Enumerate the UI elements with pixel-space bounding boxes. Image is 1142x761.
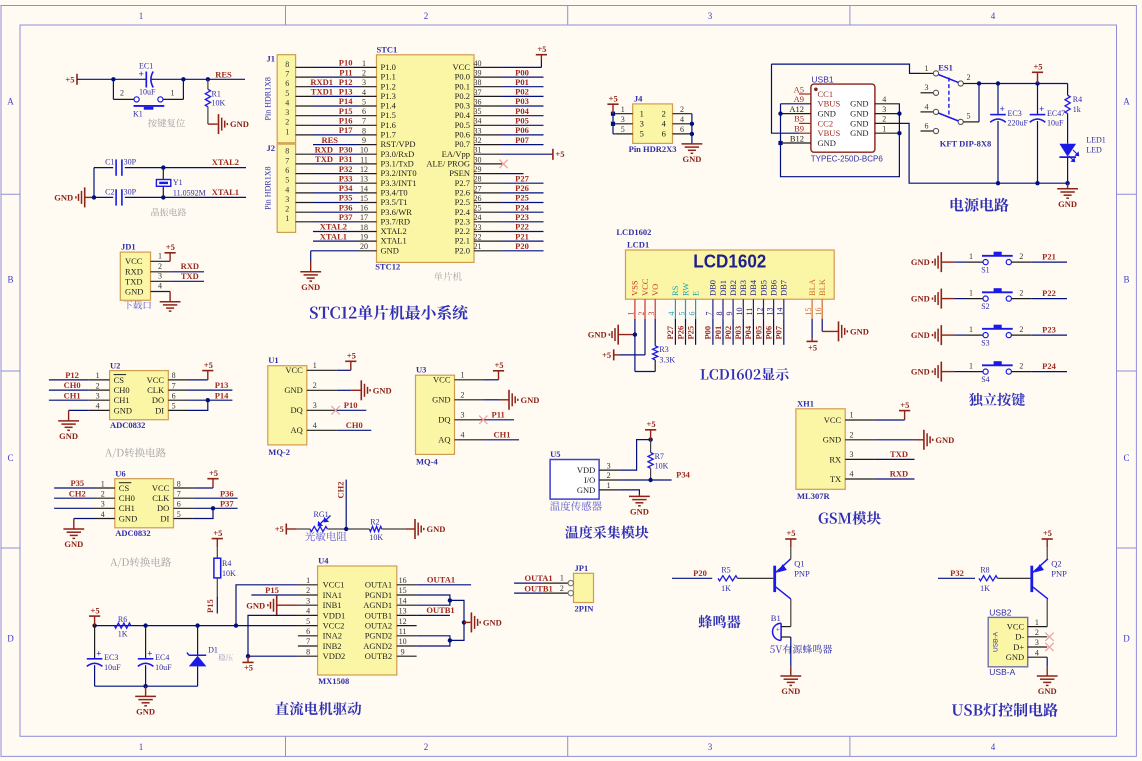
svg-text:P32: P32 — [950, 568, 964, 578]
svg-text:ES1: ES1 — [938, 62, 953, 72]
label 光敏电阻 — [305, 531, 347, 541]
svg-text:2: 2 — [1019, 289, 1023, 298]
svg-text:P0.2: P0.2 — [455, 91, 470, 101]
wire — [49, 389, 89, 391]
svg-text:CH2: CH2 — [69, 488, 86, 498]
wire — [695, 319, 697, 345]
ES1 blade 1-2 — [938, 75, 958, 83]
svg-text:1: 1 — [560, 574, 564, 583]
node junction XTAL1/Y1 — [161, 195, 165, 199]
svg-text:GND: GND — [246, 600, 265, 610]
node junction VSS gnd — [633, 332, 637, 336]
node junction J4 pin4 — [690, 122, 694, 126]
node junction B12 — [778, 141, 782, 145]
wire U4 PGND1/AGND1 tie — [417, 595, 450, 605]
svg-text:2: 2 — [850, 431, 854, 440]
svg-text:+5: +5 — [65, 74, 74, 84]
svg-text:2: 2 — [607, 471, 611, 480]
wire — [502, 86, 544, 88]
svg-text:TXD: TXD — [125, 276, 142, 286]
title 电源电路 — [951, 198, 1009, 212]
svg-text:DQ: DQ — [438, 415, 450, 425]
svg-text:4: 4 — [680, 115, 684, 124]
svg-text:CC2: CC2 — [818, 118, 834, 128]
svg-text:CH0: CH0 — [119, 493, 135, 503]
capacitor EC3 10uF (motor) — [94, 626, 96, 659]
svg-text:6: 6 — [285, 79, 289, 88]
wire — [502, 76, 544, 78]
svg-text:P05: P05 — [753, 326, 763, 340]
svg-text:1: 1 — [969, 325, 973, 334]
svg-text:Pin HDR2X3: Pin HDR2X3 — [629, 144, 677, 154]
svg-text:GND: GND — [119, 513, 137, 523]
svg-text:P01: P01 — [713, 326, 723, 340]
wire PSEN pin29 stub — [502, 173, 524, 175]
svg-text:6: 6 — [177, 500, 181, 509]
wire +5 rail (VCC2) — [95, 625, 298, 627]
svg-text:2: 2 — [424, 11, 429, 21]
svg-text:2: 2 — [680, 105, 684, 114]
node junction left of EC1 — [111, 77, 115, 81]
adc U2 body — [110, 371, 169, 420]
svg-text:P24: P24 — [1042, 361, 1056, 371]
svg-text:Pin HDR1X8: Pin HDR1X8 — [264, 167, 273, 210]
wire — [313, 115, 359, 117]
svg-text:VBUS: VBUS — [818, 128, 841, 138]
node junction R7/IO — [648, 478, 652, 482]
svg-text:S1: S1 — [981, 265, 989, 274]
connector J2 Pin HDR1X8 body — [277, 144, 295, 232]
svg-text:P11: P11 — [492, 409, 505, 419]
svg-text:8: 8 — [285, 60, 289, 69]
node junction J4 pin1 — [611, 112, 615, 116]
svg-text:2: 2 — [882, 115, 886, 124]
svg-text:Pin HDR1X8: Pin HDR1X8 — [264, 77, 273, 120]
wire EC1 left branch down to K1 — [112, 79, 114, 99]
svg-text:P2.5: P2.5 — [455, 197, 470, 207]
svg-text:7: 7 — [285, 70, 289, 79]
connector JD1 body — [120, 252, 150, 300]
svg-text:R2: R2 — [370, 518, 379, 527]
svg-text:2: 2 — [1019, 362, 1023, 371]
svg-text:D1: D1 — [208, 646, 218, 655]
resistor R1 10K — [207, 79, 209, 89]
wire C1 to XTAL2 — [125, 167, 246, 169]
svg-text:DB0: DB0 — [708, 280, 718, 296]
svg-text:JD1: JD1 — [121, 242, 136, 252]
wire — [674, 319, 676, 345]
svg-text:P03: P03 — [733, 326, 743, 340]
svg-text:P2.7: P2.7 — [455, 178, 470, 188]
wire GND — [485, 399, 500, 401]
wire — [1032, 371, 1067, 373]
title LCD1602显示 — [701, 368, 789, 381]
ground (STC GND pin) — [310, 262, 312, 272]
svg-text:XTAL2: XTAL2 — [381, 226, 407, 236]
ground (LCD backlight) — [838, 321, 840, 341]
svg-text:1: 1 — [139, 11, 144, 21]
driver U4 MX1508 body — [318, 566, 397, 675]
title 直流电机驱动 — [275, 702, 361, 716]
svg-text:2: 2 — [662, 109, 666, 119]
svg-text:P15: P15 — [339, 106, 353, 116]
svg-text:6: 6 — [662, 129, 666, 139]
svg-text:P35: P35 — [70, 478, 84, 488]
svg-text:U2: U2 — [110, 360, 120, 370]
svg-text:11: 11 — [399, 627, 407, 636]
ground (LCD) — [617, 325, 619, 345]
svg-text:VDD: VDD — [577, 465, 595, 475]
svg-text:VCC: VCC — [152, 483, 170, 493]
svg-text:R3: R3 — [659, 345, 668, 354]
svg-text:P26: P26 — [515, 183, 529, 193]
svg-text:30P: 30P — [124, 187, 137, 196]
wire — [54, 507, 94, 509]
mcu STC1 body — [377, 55, 475, 263]
svg-text:P27: P27 — [665, 325, 675, 339]
svg-text:3: 3 — [313, 401, 317, 410]
svg-text:4: 4 — [667, 312, 676, 316]
wire R2 to gnd — [382, 528, 406, 530]
svg-text:13: 13 — [360, 175, 368, 184]
svg-text:GND: GND — [427, 524, 446, 534]
wire OUTB1 (JP1) — [514, 592, 543, 594]
svg-text:RXD1: RXD1 — [310, 77, 333, 87]
svg-text:P3.7/RD: P3.7/RD — [381, 216, 411, 226]
wire U4 OUTA1 — [417, 584, 472, 586]
svg-text:B1: B1 — [771, 613, 781, 623]
svg-text:P0.0: P0.0 — [455, 72, 470, 82]
svg-text:P3.0/RxD: P3.0/RxD — [381, 149, 415, 159]
svg-text:+5: +5 — [537, 44, 546, 54]
svg-text:INB1: INB1 — [323, 600, 342, 610]
ground (S3) — [940, 325, 942, 345]
svg-text:P1.4: P1.4 — [381, 101, 397, 111]
svg-text:XH1: XH1 — [797, 399, 814, 409]
svg-text:VCC2: VCC2 — [323, 621, 345, 631]
svg-text:GND: GND — [850, 128, 868, 138]
svg-text:8: 8 — [362, 126, 366, 135]
svg-text:B: B — [1123, 275, 1129, 285]
wire motor bottom rail — [95, 685, 198, 687]
svg-text:4: 4 — [461, 431, 465, 440]
svg-text:MX1508: MX1508 — [318, 676, 349, 686]
svg-text:+5: +5 — [647, 419, 656, 429]
ES1 pin 3 — [921, 92, 934, 94]
wire DQ — [337, 409, 367, 411]
ground (U5) — [638, 495, 640, 497]
svg-text:A: A — [7, 97, 14, 107]
wire EC1 right branch down to K1 — [182, 79, 184, 99]
svg-text:P20: P20 — [693, 568, 707, 578]
wire gnd pin4 — [74, 518, 94, 520]
no-connect X DQ — [331, 406, 339, 414]
wire J4 right bus — [691, 114, 693, 144]
svg-text:P0.4: P0.4 — [455, 110, 471, 120]
svg-text:B: B — [7, 275, 13, 285]
capacitor EC1 10uF — [143, 78, 146, 80]
svg-text:13: 13 — [399, 607, 407, 616]
svg-text:2PIN: 2PIN — [575, 604, 595, 614]
svg-text:23: 23 — [474, 223, 482, 232]
svg-text:+5: +5 — [609, 93, 618, 103]
svg-text:4: 4 — [96, 402, 100, 411]
ground (buzzer) — [780, 675, 801, 677]
wire — [313, 192, 359, 194]
svg-text:B9: B9 — [794, 124, 804, 134]
USB1 pin B12 stub — [781, 142, 811, 144]
svg-text:1: 1 — [969, 289, 973, 298]
svg-text:EC4: EC4 — [155, 653, 169, 662]
svg-text:5: 5 — [285, 89, 289, 98]
svg-text:P3.6/WR: P3.6/WR — [381, 207, 413, 217]
svg-text:1: 1 — [101, 479, 105, 488]
svg-text:RXD: RXD — [125, 266, 143, 276]
node junction LED bottom rail — [1065, 181, 1069, 185]
wire VDD to +5 — [619, 440, 651, 471]
ground (XH1) — [923, 430, 925, 450]
svg-text:4: 4 — [158, 282, 162, 291]
ground (U3) — [508, 390, 510, 410]
power +5 (reset circuit) — [76, 74, 78, 85]
wire — [502, 192, 544, 194]
power +5 (U3) — [498, 371, 500, 380]
svg-text:P25: P25 — [515, 193, 529, 203]
svg-text:P0.5: P0.5 — [455, 120, 470, 130]
svg-text:3: 3 — [285, 108, 289, 117]
svg-text:3: 3 — [882, 105, 886, 114]
wire Q1 emitter down — [790, 599, 792, 627]
svg-text:10: 10 — [735, 308, 744, 316]
node junction DO/DI — [206, 398, 210, 402]
led LED1 — [1059, 144, 1076, 157]
wire top rail to ES1 — [772, 64, 921, 73]
wire GND U5 — [619, 490, 639, 495]
svg-text:P37: P37 — [220, 498, 234, 508]
wire — [313, 221, 359, 223]
svg-text:8: 8 — [715, 312, 724, 316]
svg-text:10: 10 — [399, 637, 407, 646]
svg-text:P04: P04 — [515, 106, 529, 116]
connector J4 body — [633, 104, 673, 143]
svg-text:4: 4 — [850, 470, 854, 479]
svg-text:TYPEC-250D-BCP6: TYPEC-250D-BCP6 — [811, 154, 884, 163]
svg-text:P20: P20 — [515, 241, 529, 251]
svg-text:P07: P07 — [774, 325, 784, 339]
power +5 (power circuit) — [1037, 72, 1039, 83]
svg-text:AGND1: AGND1 — [363, 600, 392, 610]
svg-text:35: 35 — [474, 107, 482, 116]
wire Q2 emitter down — [1046, 599, 1048, 627]
svg-text:P36: P36 — [220, 488, 234, 498]
svg-text:RG1: RG1 — [314, 510, 329, 519]
svg-text:+5: +5 — [275, 524, 284, 534]
svg-text:GND: GND — [230, 119, 249, 129]
wire — [502, 144, 544, 146]
svg-text:OUTA1: OUTA1 — [427, 574, 455, 584]
svg-text:7: 7 — [362, 117, 366, 126]
svg-text:6: 6 — [680, 125, 684, 134]
wire — [502, 211, 544, 213]
svg-text:BLK: BLK — [817, 278, 827, 296]
svg-text:2: 2 — [120, 89, 124, 98]
svg-text:TXD: TXD — [890, 449, 908, 459]
svg-text:32: 32 — [474, 136, 482, 145]
svg-text:GND: GND — [588, 330, 607, 340]
svg-text:28: 28 — [474, 175, 482, 184]
svg-text:GND: GND — [781, 686, 800, 696]
power +5 (J4) — [612, 104, 614, 114]
svg-text:P02: P02 — [723, 326, 733, 340]
push button K1 — [134, 97, 139, 102]
svg-text:+: + — [776, 626, 780, 634]
svg-text:R8: R8 — [980, 566, 989, 575]
wire R5 to Q1 base — [738, 577, 774, 579]
svg-text:GND: GND — [64, 539, 83, 549]
capacitor C1 30P — [115, 159, 117, 175]
svg-text:P26: P26 — [675, 326, 685, 340]
svg-text:E: E — [690, 291, 700, 296]
svg-text:6: 6 — [925, 121, 929, 130]
svg-text:U6: U6 — [115, 468, 125, 478]
svg-text:KFT DIP-8X8: KFT DIP-8X8 — [940, 139, 992, 149]
svg-text:3: 3 — [1035, 638, 1039, 647]
svg-text:10uF: 10uF — [1047, 119, 1064, 128]
power +5 (U4 VDD) — [247, 656, 249, 662]
svg-text:+: + — [96, 648, 101, 658]
svg-text:VCC: VCC — [1007, 622, 1025, 632]
wire R8 to Q2 base — [998, 577, 1031, 579]
svg-text:8: 8 — [285, 147, 289, 156]
USB1 pin B5 stub — [799, 122, 811, 124]
node junction USB pin1 — [897, 131, 901, 135]
svg-text:+5: +5 — [808, 342, 817, 352]
svg-text:DB4: DB4 — [748, 279, 758, 296]
resistor R4 10K (rect style) — [216, 548, 218, 559]
svg-text:1: 1 — [969, 362, 973, 371]
svg-text:10K: 10K — [655, 462, 669, 471]
svg-text:P2.4: P2.4 — [455, 207, 471, 217]
svg-text:P1.2: P1.2 — [381, 81, 396, 91]
svg-text:OUTA1: OUTA1 — [365, 580, 392, 590]
zener diode D1 — [197, 626, 199, 656]
svg-text:2: 2 — [967, 73, 971, 82]
svg-text:1: 1 — [285, 127, 289, 136]
connector XH1 body — [796, 409, 845, 490]
svg-text:EC3: EC3 — [104, 653, 118, 662]
ground (U4) — [464, 621, 470, 623]
svg-text:P1.6: P1.6 — [381, 120, 396, 130]
power +5 (U2) — [207, 371, 209, 380]
svg-text:GND: GND — [54, 193, 73, 203]
sensor U1 MQ-2 body — [268, 366, 307, 445]
node junction right of EC1 — [181, 77, 185, 81]
svg-text:DO: DO — [152, 395, 164, 405]
svg-text:XTAL2: XTAL2 — [320, 222, 347, 232]
svg-text:3: 3 — [461, 411, 465, 420]
svg-text:3: 3 — [708, 11, 713, 21]
node junction +5/R7 — [648, 437, 652, 441]
svg-text:GND: GND — [850, 118, 868, 128]
svg-text:6: 6 — [687, 312, 696, 316]
wire B1 to gnd — [790, 637, 792, 667]
svg-text:OUTB1: OUTB1 — [524, 583, 552, 593]
svg-text:2: 2 — [560, 584, 564, 593]
svg-text:4: 4 — [991, 11, 996, 21]
svg-text:XTAL1: XTAL1 — [320, 231, 347, 241]
USB1 pin A5 stub — [799, 93, 811, 95]
svg-text:7: 7 — [172, 381, 176, 390]
wire — [313, 173, 359, 175]
wire C2 to XTAL1 — [125, 196, 246, 198]
svg-text:DB5: DB5 — [758, 280, 768, 296]
svg-text:P22: P22 — [515, 222, 529, 232]
label 晶振电路 — [151, 208, 186, 216]
wire — [502, 202, 544, 204]
svg-text:+5: +5 — [91, 606, 100, 616]
wire — [313, 66, 359, 68]
svg-text:5: 5 — [172, 402, 176, 411]
svg-text:3: 3 — [708, 742, 713, 752]
wire I/O to P34 — [619, 479, 672, 481]
power +5 (R4 pullup) — [216, 539, 218, 548]
svg-text:A: A — [1123, 97, 1130, 107]
svg-text:2: 2 — [1019, 252, 1023, 261]
power +5 (photoresistor) — [285, 524, 287, 535]
svg-text:P06: P06 — [515, 125, 529, 135]
svg-text:5: 5 — [362, 97, 366, 106]
svg-text:19: 19 — [360, 233, 368, 242]
svg-text:U3: U3 — [416, 364, 426, 374]
wire Q2 collector to +5 — [1046, 548, 1048, 559]
wire gnd pin4 — [69, 409, 89, 411]
svg-text:GND: GND — [373, 385, 392, 395]
svg-text:P21: P21 — [1042, 252, 1056, 262]
wire P32 to R8 — [938, 577, 975, 579]
svg-text:RXD: RXD — [890, 469, 908, 479]
ES1 dashed link — [948, 78, 950, 119]
resistor R7 10K — [650, 440, 652, 453]
svg-text:JP1: JP1 — [575, 563, 589, 573]
svg-text:GND: GND — [381, 245, 399, 255]
svg-text:P12: P12 — [65, 370, 79, 380]
resistor R4 1k (power) — [1067, 84, 1069, 96]
wire — [502, 240, 544, 242]
svg-text:9: 9 — [362, 136, 366, 145]
svg-text:USB-A: USB-A — [993, 631, 1000, 652]
resistor R6 1K — [114, 623, 131, 628]
svg-text:DB2: DB2 — [728, 280, 738, 296]
wire U4 PGND2/AGND2 tie — [417, 636, 450, 646]
svg-text:R4: R4 — [222, 559, 231, 568]
svg-text:P14: P14 — [215, 390, 229, 400]
svg-text:INA1: INA1 — [323, 590, 342, 600]
svg-text:2: 2 — [158, 262, 162, 271]
svg-text:10uF: 10uF — [139, 88, 156, 97]
node junction rail/EC4 — [143, 623, 147, 627]
wire — [954, 261, 966, 263]
svg-text:J4: J4 — [634, 93, 643, 103]
svg-text:GND: GND — [1038, 686, 1057, 696]
node junction rail/D1 — [195, 623, 199, 627]
no-connect X USB2 pin2 — [1045, 633, 1053, 641]
svg-text:10: 10 — [360, 146, 368, 155]
svg-text:K1: K1 — [133, 110, 143, 119]
svg-text:EC3: EC3 — [1008, 109, 1022, 118]
wire U4 VDD1/VDD2 tie — [248, 615, 298, 656]
svg-text:4: 4 — [285, 98, 289, 107]
svg-text:1: 1 — [969, 252, 973, 261]
